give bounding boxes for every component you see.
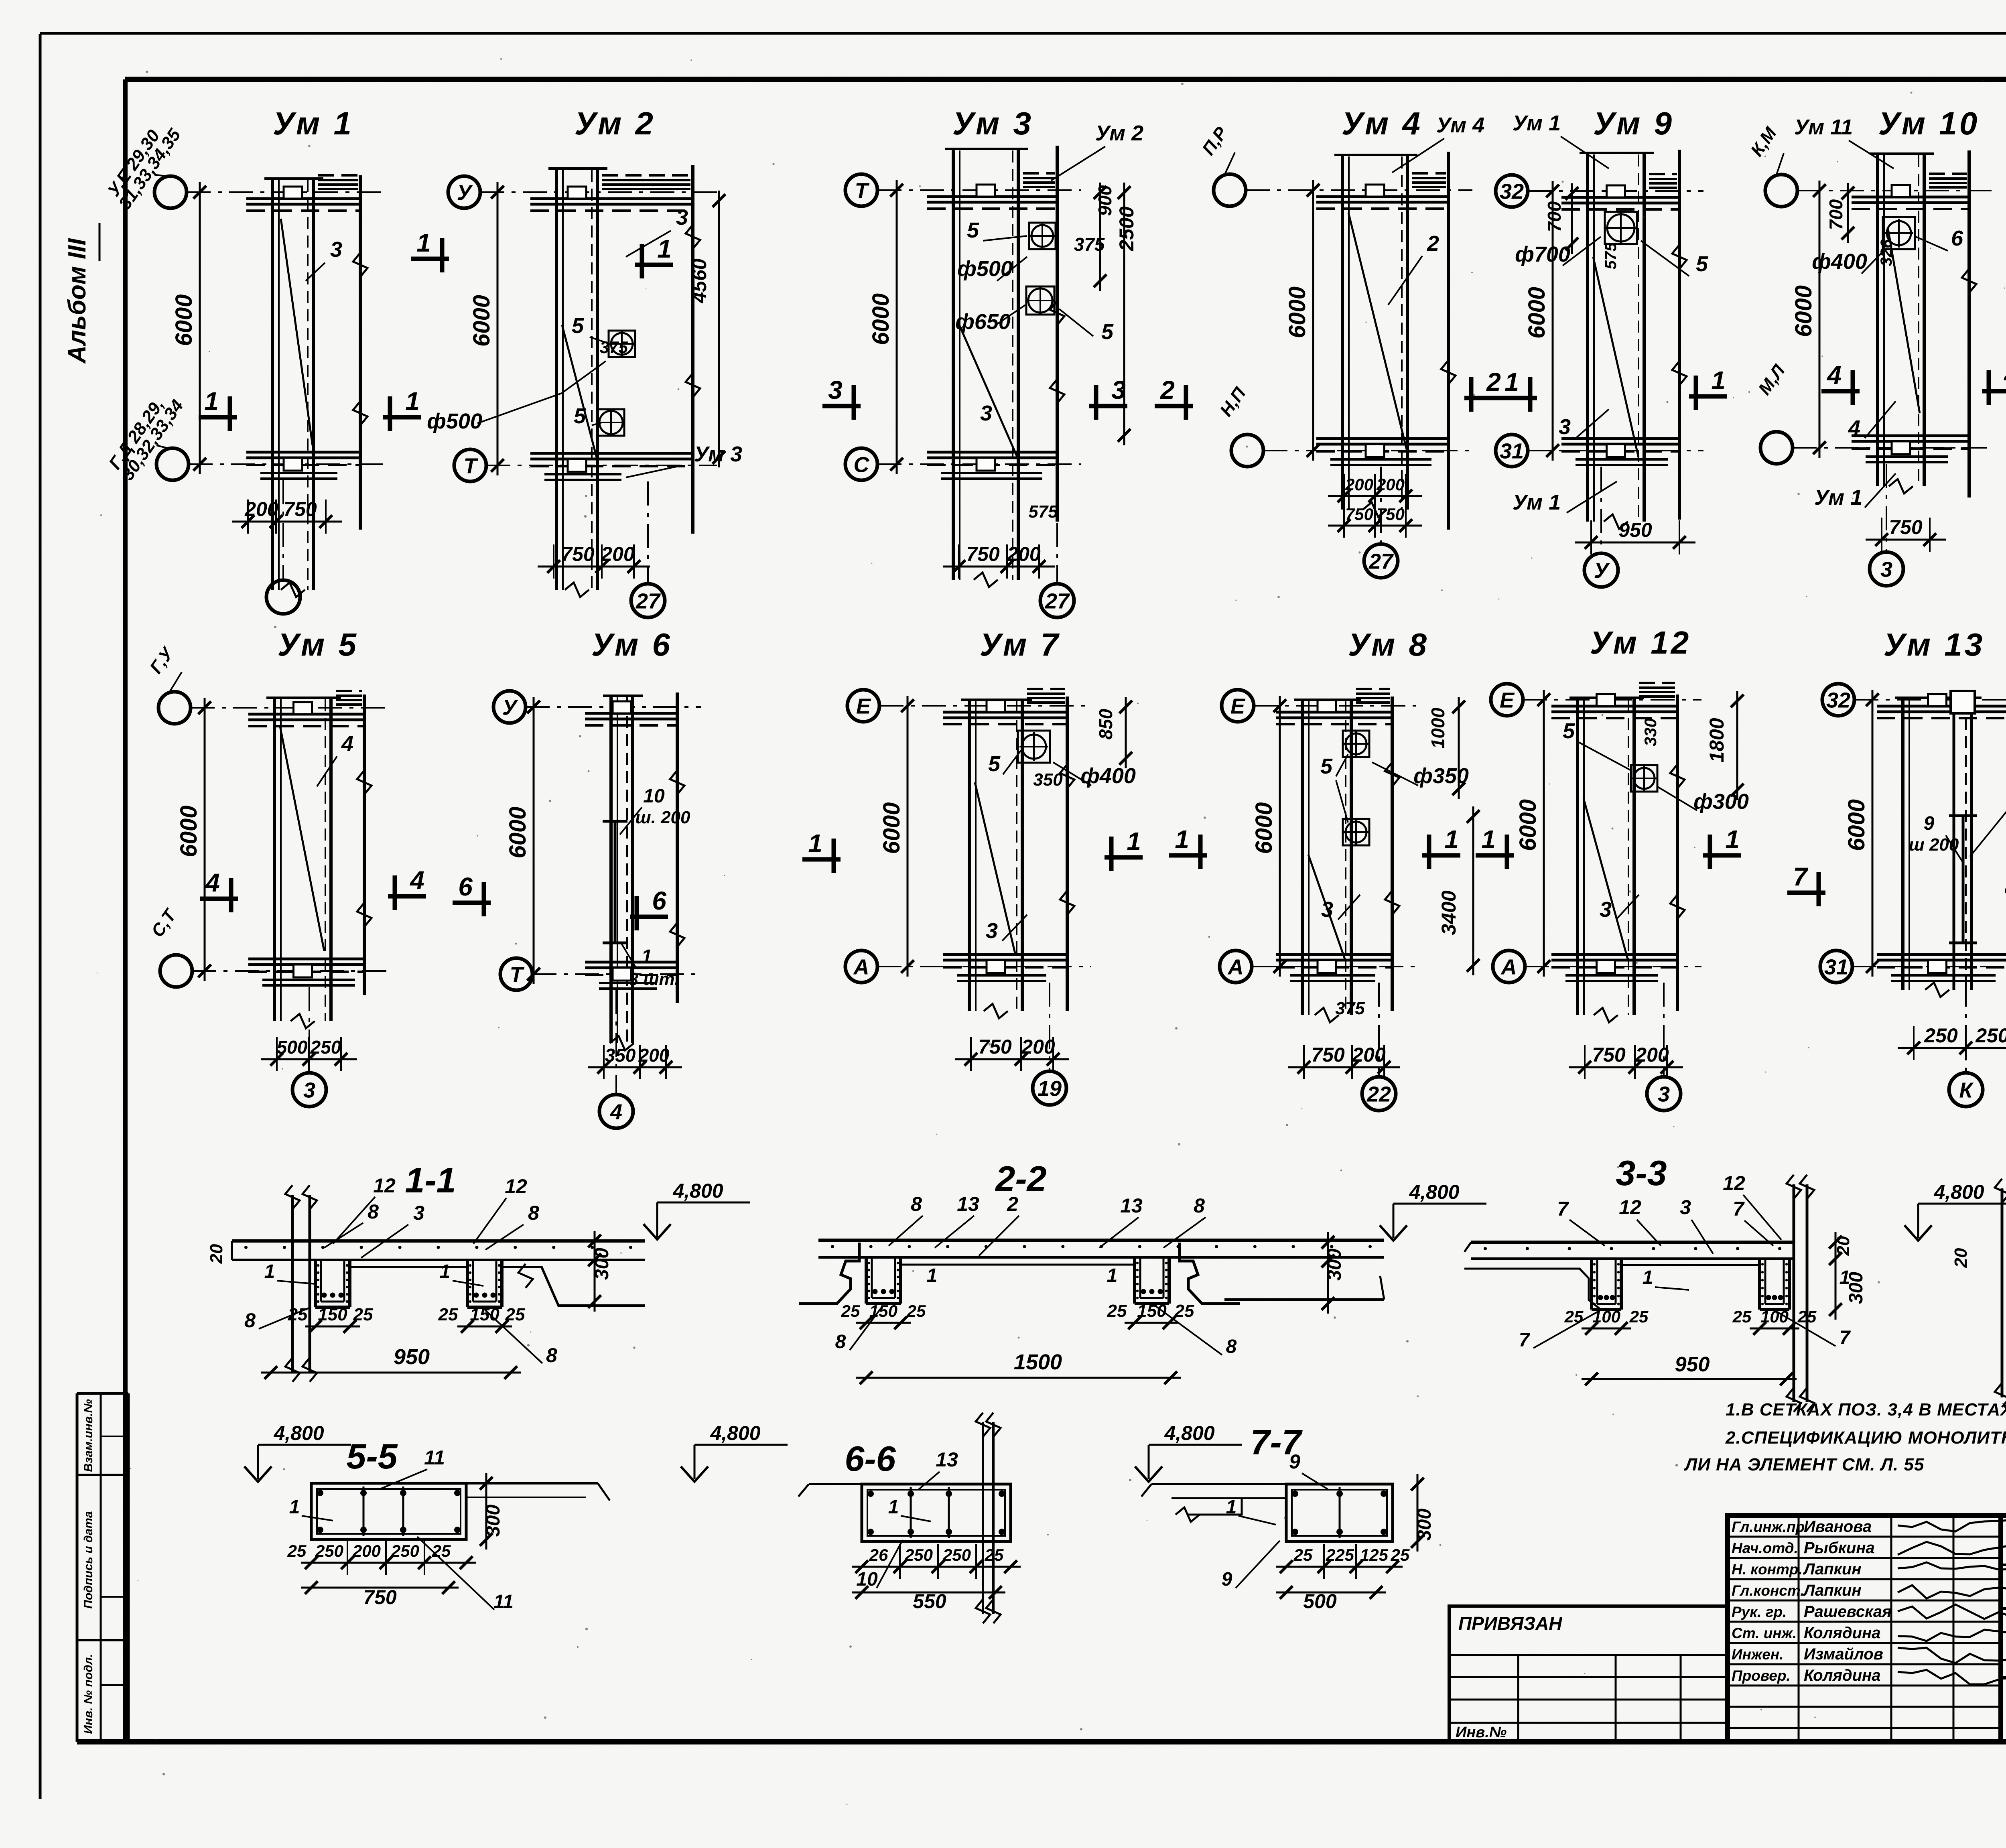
dimension 6000: [1543, 690, 1545, 977]
column shaft: [271, 179, 274, 590]
floor slab top: [1561, 196, 1679, 199]
bottom axis line: [1663, 983, 1665, 1077]
svg-text:ф400: ф400: [1812, 250, 1867, 274]
mesh diagonal: [1593, 257, 1639, 457]
svg-text:200: 200: [1345, 475, 1373, 494]
svg-text:1: 1: [1643, 1267, 1653, 1288]
floor slab top: [943, 711, 1067, 714]
svg-text:Ум 13: Ум 13: [1884, 627, 1985, 662]
svg-text:2.СПЕЦИФИКАЦИЮ МОНОЛИТНЫХ ЭЛ: 2.СПЕЦИФИКАЦИЮ МОНОЛИТНЫХ ЭЛЕМЕНТОВ, ВЕД…: [1725, 1428, 2006, 1448]
svg-text:Провер.: Провер.: [1732, 1667, 1791, 1684]
dimension 6000: [1312, 180, 1314, 461]
svg-text:Ум 12: Ум 12: [1590, 625, 1691, 660]
svg-text:7: 7: [1733, 1198, 1745, 1220]
dimension 6000: [1279, 696, 1281, 977]
beam seat: [568, 187, 586, 199]
svg-text:3: 3: [1600, 898, 1612, 922]
axis circle bottom: [845, 950, 877, 983]
svg-text:Ум 10: Ум 10: [1878, 106, 1980, 141]
svg-text:А: А: [1500, 955, 1517, 979]
svg-text:ф300: ф300: [1693, 790, 1749, 814]
1-1 ribs: [314, 1260, 317, 1307]
mesh diagonal: [562, 325, 597, 457]
svg-text:3: 3: [413, 1202, 424, 1224]
dimension 6000: [199, 182, 201, 474]
axis circle bottom: [1220, 950, 1252, 983]
svg-text:25: 25: [1797, 1307, 1817, 1326]
svg-text:8: 8: [244, 1309, 256, 1332]
svg-text:25: 25: [1629, 1307, 1649, 1326]
svg-text:Нач.отд.: Нач.отд.: [1732, 1540, 1798, 1556]
outer margin line left: [39, 34, 42, 1799]
svg-text:1: 1: [204, 387, 219, 416]
Um7 dim 850: [1125, 697, 1127, 768]
leader line: [621, 943, 636, 968]
svg-text:Колядина: Колядина: [1804, 1624, 1881, 1642]
svg-text:350: 350: [1033, 770, 1063, 790]
wall line right: [1066, 697, 1069, 1011]
svg-text:250: 250: [391, 1541, 419, 1560]
svg-text:7: 7: [1793, 862, 1809, 891]
svg-text:4: 4: [1848, 416, 1860, 440]
floor slab bottom: [927, 451, 1057, 454]
wall line right: [691, 165, 694, 534]
bottom axis line: [647, 481, 649, 584]
svg-text:9: 9: [1289, 1450, 1300, 1473]
svg-text:Ст. инж.: Ст. инж.: [1732, 1625, 1797, 1641]
leader line: [592, 422, 602, 425]
dimension 6000: [204, 698, 206, 981]
leader line: [1641, 241, 1689, 276]
svg-text:13: 13: [1120, 1194, 1143, 1217]
wall line right: [359, 175, 362, 530]
svg-text:6000: 6000: [1844, 799, 1870, 851]
svg-text:ф500: ф500: [957, 257, 1013, 281]
svg-text:4: 4: [409, 866, 424, 895]
axis circle bottom: [1493, 950, 1525, 983]
3-3 bottom dims: [1582, 1328, 1631, 1330]
svg-text:375: 375: [600, 338, 628, 357]
svg-text:3: 3: [676, 205, 688, 229]
1-1 bottom dims: [305, 1326, 360, 1328]
svg-text:У: У: [1594, 558, 1610, 583]
section mark 6: [630, 915, 668, 919]
svg-text:20: 20: [1951, 1248, 1971, 1268]
svg-text:ф500: ф500: [427, 409, 482, 433]
svg-text:4,800: 4,800: [672, 1180, 723, 1202]
6-6 wall vertical: [982, 1422, 984, 1614]
floor slab top: [1877, 705, 2006, 708]
svg-text:1: 1: [1711, 366, 1726, 395]
section mark 1: [1499, 396, 1537, 400]
mesh diagonal: [959, 325, 1017, 457]
svg-text:5-5: 5-5: [346, 1436, 398, 1476]
svg-text:Гл.конст.: Гл.конст.: [1732, 1582, 1805, 1599]
svg-text:Ум 11: Ум 11: [1794, 115, 1853, 139]
svg-text:1: 1: [289, 1497, 300, 1518]
svg-text:3: 3: [303, 1078, 315, 1102]
svg-text:6000: 6000: [171, 294, 197, 346]
svg-text:1: 1: [1107, 1265, 1118, 1286]
svg-text:25: 25: [1564, 1307, 1584, 1326]
svg-text:25: 25: [438, 1305, 458, 1324]
svg-text:Т: Т: [510, 963, 525, 987]
svg-text:27: 27: [1045, 589, 1070, 613]
wall line right: [1676, 695, 1679, 1011]
svg-text:25: 25: [841, 1302, 860, 1320]
svg-text:Т: Т: [464, 454, 479, 478]
floor slab bottom: [1551, 953, 1677, 956]
2-2 beam edge right: [1180, 1243, 1240, 1304]
floor slab top: [585, 712, 677, 715]
svg-text:1: 1: [1444, 825, 1459, 854]
svg-text:6000: 6000: [868, 293, 894, 345]
svg-text:4,800: 4,800: [1164, 1422, 1214, 1444]
svg-text:1: 1: [1127, 827, 1141, 856]
floor slab top: [1316, 195, 1448, 198]
svg-text:5: 5: [1101, 320, 1114, 344]
floor slab bottom: [1276, 953, 1392, 956]
section mark 3: [1089, 404, 1127, 408]
svg-text:1: 1: [1840, 1267, 1850, 1288]
leader line: [1053, 762, 1091, 786]
svg-text:6: 6: [1951, 226, 1963, 250]
bottom dimension: [955, 1058, 1069, 1060]
svg-text:1: 1: [416, 228, 431, 257]
grid circle bottom 3: [1647, 1077, 1681, 1111]
svg-text:500: 500: [1303, 1590, 1337, 1612]
svg-text:3: 3: [986, 919, 998, 943]
section mark 1: [1169, 853, 1207, 858]
leader line: [1336, 754, 1348, 776]
7-7 bottom dims: [1276, 1566, 1403, 1568]
svg-text:4,800: 4,800: [710, 1422, 760, 1444]
leader line: [1862, 249, 1886, 274]
svg-text:4,800: 4,800: [1409, 1181, 1459, 1203]
svg-text:9: 9: [1222, 1569, 1232, 1590]
mesh diagonal: [1308, 855, 1345, 959]
svg-text:5: 5: [1320, 754, 1333, 778]
bottom axis line: [615, 990, 617, 1095]
svg-text:1: 1: [888, 1497, 899, 1518]
leader line: [477, 361, 606, 423]
beam seat: [1366, 185, 1384, 197]
svg-text:ЛИ НА ЭЛЕМЕНТ СМ. Л. 55: ЛИ НА ЭЛЕМЕНТ СМ. Л. 55: [1684, 1455, 1924, 1474]
leader line: [1657, 786, 1697, 810]
svg-text:100: 100: [1592, 1307, 1620, 1326]
section mark 4: [388, 894, 426, 899]
title block main: [2001, 1515, 2006, 1742]
svg-text:4,800: 4,800: [1933, 1181, 1984, 1203]
svg-text:25: 25: [288, 1305, 308, 1324]
dimension 6000: [907, 696, 909, 977]
6-6 bottom dims: [852, 1566, 1021, 1568]
svg-text:11: 11: [493, 1591, 514, 1612]
leader line: [1372, 762, 1418, 786]
5-5 bottom dims: [301, 1562, 476, 1564]
leader line: [1002, 915, 1027, 941]
svg-text:4: 4: [610, 1100, 622, 1124]
bottom axis line: [309, 987, 310, 1073]
axis circle bottom: [1496, 435, 1528, 467]
svg-text:6000: 6000: [505, 806, 531, 858]
svg-text:Альбом III: Альбом III: [63, 238, 91, 364]
axis circle bottom: [156, 448, 189, 480]
Um9 dim 700: [1571, 183, 1573, 254]
opening with sleeve: [1026, 286, 1054, 315]
svg-text:4: 4: [341, 732, 353, 756]
svg-text:950: 950: [394, 1345, 430, 1369]
floor slab bottom: [248, 958, 364, 961]
svg-text:1: 1: [808, 829, 822, 858]
section mark 1: [383, 415, 421, 420]
svg-text:2500: 2500: [1115, 206, 1138, 251]
wall line right: [1967, 150, 1971, 498]
column shaft: [1301, 700, 1304, 1015]
floor slab top: [927, 195, 1057, 198]
svg-text:750: 750: [1889, 516, 1923, 538]
svg-text:1-1: 1-1: [405, 1160, 456, 1200]
svg-text:950: 950: [1675, 1353, 1710, 1376]
svg-text:3: 3: [828, 376, 843, 404]
bottom axis line: [1965, 983, 1967, 1073]
floor slab top: [1551, 705, 1677, 708]
bottom dimension: [232, 521, 342, 523]
svg-text:Лапкин: Лапкин: [1803, 1582, 1862, 1599]
svg-text:225: 225: [1326, 1545, 1354, 1564]
beam seat: [1318, 700, 1336, 712]
svg-text:6-6: 6-6: [845, 1439, 896, 1478]
svg-text:Инжен.: Инжен.: [1732, 1646, 1783, 1663]
svg-text:1: 1: [440, 1261, 451, 1282]
section mark 1: [1476, 853, 1514, 858]
svg-text:Инв. № подл.: Инв. № подл.: [82, 1654, 95, 1734]
privyazan table: [1449, 1606, 1728, 1742]
svg-text:26: 26: [869, 1545, 888, 1564]
section mark 4: [200, 897, 238, 901]
2-2 ribs: [865, 1257, 868, 1304]
svg-text:6: 6: [458, 872, 473, 901]
Um12 dim 1800: [1736, 691, 1738, 800]
leader line: [1561, 136, 1609, 169]
svg-text:2: 2: [1486, 368, 1501, 396]
svg-text:1: 1: [1481, 825, 1496, 854]
mesh diagonal: [1348, 213, 1407, 449]
axis circle bottom: [160, 955, 192, 987]
svg-text:10: 10: [856, 1569, 878, 1590]
opening with sleeve: [1018, 731, 1050, 763]
svg-text:5: 5: [574, 404, 586, 428]
column shaft: [1341, 155, 1344, 510]
grid circle bottom 3: [1870, 552, 1903, 586]
detail Um13 pilaster: [1953, 698, 1955, 990]
leader line: [626, 465, 682, 477]
dimension 6000: [1872, 690, 1874, 977]
beam seat: [1607, 185, 1625, 197]
svg-text:3: 3: [1880, 557, 1892, 581]
leader line: [1579, 742, 1631, 770]
leader line: [1946, 835, 1963, 863]
svg-text:575: 575: [1602, 242, 1620, 269]
leader line: [1388, 256, 1422, 305]
Um10 dim 700: [1847, 183, 1849, 243]
svg-text:ф700: ф700: [1515, 242, 1570, 266]
leader line: [1338, 895, 1360, 920]
wall line right: [676, 692, 679, 1003]
svg-text:3-3: 3-3: [1616, 1153, 1667, 1193]
axis circle bottom: [454, 449, 486, 481]
section mark 4: [1821, 389, 1860, 394]
section mark 4: [1982, 389, 2006, 394]
floor slab bottom: [585, 961, 677, 964]
svg-text:750: 750: [283, 498, 317, 520]
svg-text:250: 250: [1924, 1024, 1958, 1047]
3-3 support step left: [1464, 1269, 1601, 1310]
floor slab top: [248, 713, 364, 716]
svg-text:1: 1: [1175, 825, 1189, 854]
leader line: [1392, 138, 1444, 173]
svg-text:1: 1: [264, 1261, 275, 1282]
column shaft: [952, 149, 955, 580]
svg-text:25: 25: [505, 1305, 525, 1324]
Um2 dim 4560: [718, 191, 720, 467]
svg-text:250: 250: [1975, 1024, 2006, 1047]
inner frame: [125, 77, 2006, 82]
section mark 1: [199, 415, 237, 420]
Um8 dim 1000: [1458, 697, 1460, 799]
svg-text:750: 750: [1377, 505, 1405, 524]
svg-text:11: 11: [424, 1446, 445, 1469]
svg-text:Ум 9: Ум 9: [1593, 106, 1674, 141]
bottom dimension: [1288, 1066, 1400, 1068]
column shaft: [273, 698, 276, 1021]
7-7 slab line left: [1151, 1483, 1286, 1485]
leader line: [996, 305, 1025, 325]
svg-text:31: 31: [1824, 955, 1848, 979]
floor slab bottom: [943, 953, 1067, 956]
axis circle bottom: [1820, 950, 1852, 983]
svg-text:22: 22: [1366, 1082, 1391, 1106]
opening with sleeve: [1631, 765, 1657, 792]
svg-text:Рашевская: Рашевская: [1804, 1603, 1892, 1621]
svg-text:1000: 1000: [1427, 707, 1448, 749]
1-1 right haunch: [502, 1267, 645, 1306]
svg-text:Е: Е: [856, 694, 871, 718]
beam seat: [977, 185, 995, 197]
svg-text:Ум 8: Ум 8: [1348, 627, 1429, 662]
svg-text:27: 27: [1368, 549, 1394, 573]
leader line: [1051, 146, 1105, 181]
beam seat: [613, 701, 631, 713]
bottom axis line: [282, 480, 284, 580]
grid circle bottom 27: [1364, 544, 1398, 578]
svg-text:750: 750: [966, 543, 1000, 565]
bottom axis line: [1049, 983, 1050, 1071]
bottom dimension: [1575, 542, 1695, 544]
svg-text:4560: 4560: [688, 258, 711, 303]
bottom dimension: [943, 566, 1055, 568]
leader line: [1003, 750, 1021, 774]
2-2 bottom dims: [856, 1322, 911, 1324]
svg-text:950: 950: [1618, 519, 1652, 541]
svg-text:Ум 2: Ум 2: [575, 106, 656, 141]
mesh diagonal: [975, 782, 1015, 955]
svg-text:4: 4: [1826, 361, 1842, 390]
bottom dimension: [588, 1066, 682, 1068]
beam seat: [294, 702, 312, 714]
svg-text:Рук. гр.: Рук. гр.: [1732, 1604, 1787, 1620]
svg-text:8: 8: [1226, 1336, 1237, 1357]
svg-text:12: 12: [1619, 1196, 1641, 1218]
floor slab bottom: [1852, 435, 1969, 437]
bottom axis line: [1378, 983, 1380, 1077]
svg-text:Инв.№: Инв.№: [1456, 1724, 1507, 1741]
section mark 7: [1787, 891, 1825, 895]
opening with sleeve: [1343, 819, 1369, 845]
svg-text:550: 550: [913, 1590, 946, 1612]
svg-text:750: 750: [978, 1036, 1012, 1058]
svg-text:31: 31: [1500, 439, 1524, 463]
leader line: [1970, 807, 2006, 857]
svg-text:8: 8: [911, 1193, 922, 1215]
svg-text:3: 3: [980, 401, 992, 425]
svg-text:5: 5: [967, 218, 979, 242]
floor slab bottom: [530, 452, 693, 455]
axis circle bottom: [845, 448, 877, 480]
svg-text:750: 750: [363, 1586, 397, 1608]
column shaft: [1876, 154, 1879, 486]
section mark 7: [2005, 889, 2006, 893]
leader line: [1059, 309, 1093, 336]
opening with sleeve: [1029, 223, 1056, 249]
svg-text:Н. контр.: Н. контр.: [1732, 1561, 1803, 1578]
section mark 1: [635, 263, 673, 267]
floor slab top: [246, 197, 360, 200]
svg-text:1: 1: [657, 234, 672, 263]
svg-text:5: 5: [1696, 252, 1708, 276]
dimension 6000: [497, 182, 499, 475]
svg-text:1: 1: [405, 387, 420, 416]
4-4 wall vertical: [2001, 1188, 2004, 1397]
svg-text:6000: 6000: [1251, 802, 1277, 854]
scan specks: [1175, 1027, 1178, 1030]
wall line right: [1391, 697, 1394, 1011]
bottom axis line: [1886, 464, 1887, 552]
floor slab top: [1276, 711, 1392, 714]
svg-text:750: 750: [1345, 505, 1373, 524]
svg-text:7: 7: [1840, 1327, 1851, 1348]
svg-text:13: 13: [936, 1448, 958, 1471]
column shaft: [968, 700, 971, 1011]
bottom axis line: [1600, 467, 1602, 553]
svg-text:2-2: 2-2: [995, 1159, 1046, 1198]
svg-text:2: 2: [1160, 376, 1175, 404]
column shaft: [1901, 698, 1904, 990]
svg-text:Взам.инв.№: Взам.инв.№: [82, 1399, 95, 1472]
svg-text:350: 350: [605, 1045, 636, 1066]
column shaft: [1576, 698, 1579, 1015]
grid circle bottom 3: [292, 1073, 326, 1107]
svg-text:200: 200: [244, 498, 278, 520]
svg-text:Измайлов: Измайлов: [1804, 1645, 1883, 1663]
svg-text:6000: 6000: [1284, 286, 1310, 338]
opening with sleeve: [1343, 731, 1369, 757]
opening with sleeve: [609, 331, 635, 357]
beam seat: [987, 700, 1005, 712]
svg-text:375: 375: [1335, 999, 1365, 1018]
Um3 dim 900: [1099, 183, 1101, 291]
svg-text:8: 8: [835, 1331, 846, 1352]
